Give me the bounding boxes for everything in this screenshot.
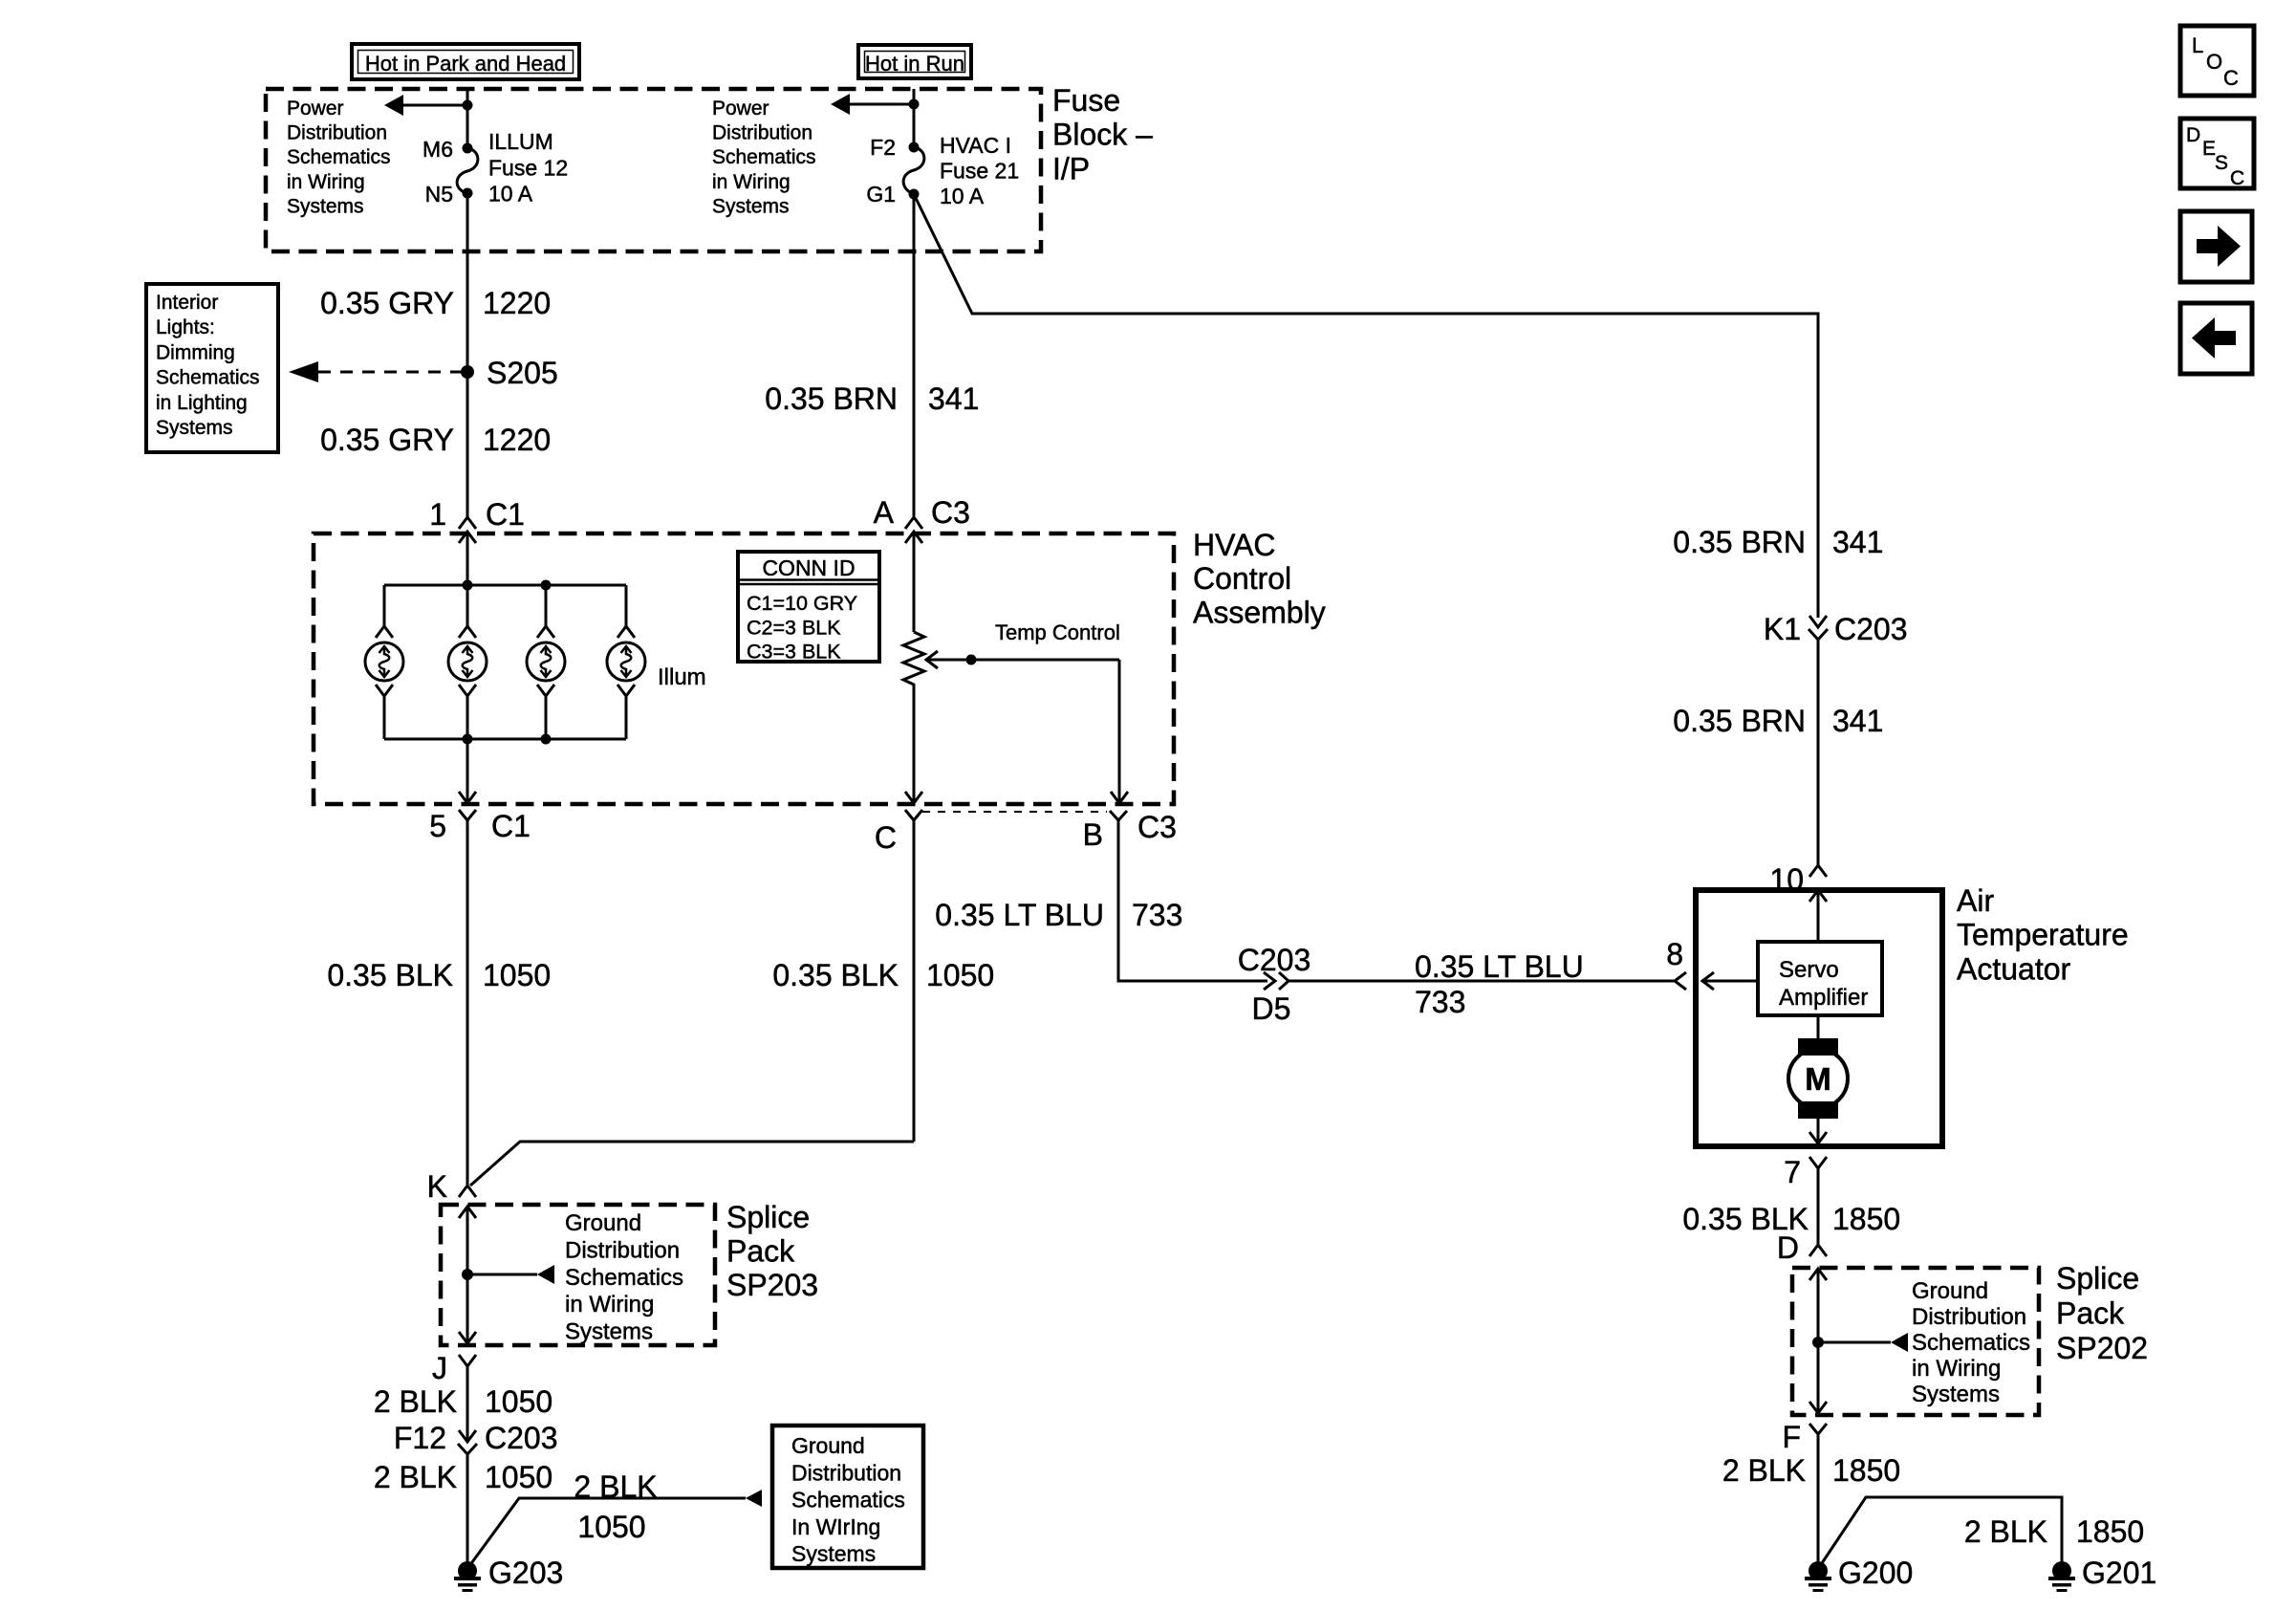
svg-text:Interior: Interior xyxy=(156,292,218,314)
splice S205 dot xyxy=(461,365,474,379)
svg-text:Schematics: Schematics xyxy=(712,146,816,168)
CONN ID table xyxy=(738,552,879,662)
reference arrow SP202 to ground distribution xyxy=(1818,1341,1891,1344)
svg-text:F: F xyxy=(1782,1420,1801,1454)
junction dot bottom bus at lamp 2 xyxy=(463,734,473,745)
wire 0.35 BLK from connector C3 pin C down xyxy=(913,820,916,1142)
svg-text:1850: 1850 xyxy=(1832,1202,1900,1236)
wire 0.35 BLK connector C1 pin 5 down to splice pack xyxy=(466,820,469,1186)
svg-text:HVAC I: HVAC I xyxy=(940,133,1011,158)
splice pack SP203 dashed box xyxy=(441,1205,715,1345)
svg-text:In WIrIng: In WIrIng xyxy=(791,1514,880,1539)
svg-text:Systems: Systems xyxy=(791,1541,876,1566)
svg-text:0.35 LT BLU: 0.35 LT BLU xyxy=(935,898,1104,932)
connector C3 pin B (female half) xyxy=(1110,811,1127,820)
svg-text:F12: F12 xyxy=(394,1421,446,1455)
svg-text:C1: C1 xyxy=(486,497,525,532)
wire 0.35 LT BLU connector B elbow xyxy=(1118,820,1267,981)
svg-text:S205: S205 xyxy=(487,356,558,390)
svg-text:CONN ID: CONN ID xyxy=(762,555,855,580)
splice pack SP203 exit arrow xyxy=(459,1332,476,1343)
svg-text:Air: Air xyxy=(1957,883,1994,918)
icon back arrow xyxy=(2180,303,2252,374)
connector C3 pin C (female half) xyxy=(905,810,922,820)
connector pin 7 (female half) xyxy=(1809,1157,1827,1168)
junction dot top bus at lamp 3 xyxy=(541,580,552,591)
connector C1 pin 1 (male arrow) xyxy=(459,532,476,543)
connector J (female half) xyxy=(459,1355,476,1366)
svg-text:Schematics: Schematics xyxy=(791,1488,905,1513)
wire into illumination lamp bus xyxy=(466,532,469,585)
svg-text:1050: 1050 xyxy=(485,1460,552,1494)
wire 0.35 BRN fuse 21 G1 to air temperature actuator riser xyxy=(914,194,1818,618)
motor brush (bottom) xyxy=(1798,1101,1838,1119)
svg-text:Hot in Run: Hot in Run xyxy=(865,52,964,76)
illumination lamp 3 xyxy=(545,585,548,626)
svg-text:G203: G203 xyxy=(488,1556,563,1590)
connector C3 pin A (male arrow) xyxy=(905,532,922,543)
svg-text:Systems: Systems xyxy=(565,1319,653,1345)
svg-text:ILLUM: ILLUM xyxy=(488,129,553,154)
connector F (female half) xyxy=(1809,1424,1827,1434)
illumination lamp 2 xyxy=(466,585,469,626)
svg-text:0.35 BLK: 0.35 BLK xyxy=(327,958,453,992)
wire 0.35 BLK pin 7 to connector D xyxy=(1817,1168,1820,1245)
ground G200 xyxy=(1809,1561,1828,1580)
svg-text:in Lighting: in Lighting xyxy=(156,392,248,414)
wire potentiometer to connector C3 pin C xyxy=(913,689,916,803)
junction dot SP202 xyxy=(1812,1337,1824,1348)
branch wire 2 BLK 1050 to ground distribution reference xyxy=(469,1498,746,1566)
svg-text:10 A: 10 A xyxy=(940,184,985,208)
HVAC Control Assembly dashed box xyxy=(314,533,1174,804)
svg-text:Distribution: Distribution xyxy=(565,1237,680,1263)
Air Temperature Actuator box xyxy=(1696,890,1942,1146)
svg-text:1050: 1050 xyxy=(926,958,994,992)
svg-text:Illum: Illum xyxy=(658,664,706,690)
svg-text:L: L xyxy=(2192,33,2203,57)
wire 0.35 GRY from fuse to S205 xyxy=(466,194,469,372)
svg-text:Ground: Ground xyxy=(565,1210,641,1236)
illumination lamp 1 xyxy=(383,585,386,626)
svg-text:Actuator: Actuator xyxy=(1957,951,2071,986)
svg-text:2 BLK: 2 BLK xyxy=(1964,1514,2047,1549)
dashed reference arrow to interior lights box xyxy=(318,371,461,374)
fuse terminal N5 dot xyxy=(463,188,473,199)
svg-text:Control: Control xyxy=(1193,561,1291,596)
svg-text:SP202: SP202 xyxy=(2056,1331,2148,1365)
wire 0.35 BRN to actuator pin 10 xyxy=(1817,640,1820,865)
fuse element HVAC I Fuse 21 (S-curve) xyxy=(903,147,924,194)
temp control potentiometer feed wire xyxy=(913,532,916,632)
label box: Hot in Park and Head xyxy=(352,44,579,79)
svg-text:7: 7 xyxy=(1784,1155,1801,1189)
svg-text:341: 341 xyxy=(928,381,979,416)
connector C203 D5 (male arrow) xyxy=(1264,972,1275,990)
svg-text:Temperature: Temperature xyxy=(1957,918,2129,952)
reference box: Interior Lights Dimming Schematics in Lighting Systems xyxy=(146,284,278,452)
svg-text:M6: M6 xyxy=(422,137,453,162)
svg-text:HVAC: HVAC xyxy=(1193,528,1276,562)
connector K (female half) xyxy=(459,1186,476,1197)
svg-text:D5: D5 xyxy=(1252,991,1291,1026)
svg-text:0.35 GRY: 0.35 GRY xyxy=(320,423,454,457)
connector K (male arrow) xyxy=(459,1207,476,1218)
wire motor to actuator box bottom xyxy=(1817,1117,1820,1143)
svg-text:0.35 BRN: 0.35 BRN xyxy=(1673,704,1806,738)
svg-text:G1: G1 xyxy=(866,182,896,207)
fuse terminal G1 dot xyxy=(909,189,920,200)
svg-text:1220: 1220 xyxy=(483,286,551,320)
icon DESC xyxy=(2180,119,2254,188)
svg-text:0.35 GRY: 0.35 GRY xyxy=(320,286,454,320)
svg-text:10 A: 10 A xyxy=(488,182,533,207)
fuse block I/P dashed box xyxy=(266,89,1041,251)
potentiometer resistive element (zigzag) xyxy=(903,632,924,689)
svg-text:5: 5 xyxy=(429,809,446,843)
connector C3 pin A (female half) xyxy=(905,517,922,529)
svg-text:2 BLK: 2 BLK xyxy=(574,1469,657,1504)
svg-text:Lights:: Lights: xyxy=(156,316,215,338)
svg-text:1220: 1220 xyxy=(483,423,551,457)
branch wire 2 BLK 1850 to ground G201 xyxy=(1820,1497,2062,1566)
svg-text:Schematics: Schematics xyxy=(1912,1330,2030,1356)
svg-text:B: B xyxy=(1083,817,1103,852)
lamp bus (top) xyxy=(384,584,626,587)
connector C1 pin 5 (female half) xyxy=(459,810,476,820)
fuse element ILLUM Fuse 12 (S-curve) xyxy=(457,148,478,193)
junction dot on Park/Head feed xyxy=(463,100,473,111)
wire 0.35 BRN fuse 21 to connector C3 pin A xyxy=(913,194,916,517)
wire from Hot in Run feed down to fuse 21 xyxy=(913,89,916,147)
svg-text:1050: 1050 xyxy=(485,1384,552,1419)
svg-text:G201: G201 xyxy=(2082,1556,2156,1590)
splice pack SP202 exit arrow xyxy=(1809,1402,1827,1413)
svg-text:Dimming: Dimming xyxy=(156,341,235,363)
svg-text:1050: 1050 xyxy=(577,1510,645,1544)
svg-text:1050: 1050 xyxy=(483,958,551,992)
svg-text:C3: C3 xyxy=(931,495,970,530)
wire 2 BLK to ground G200 xyxy=(1817,1434,1820,1565)
wire J to connector C203 F12 xyxy=(466,1366,469,1442)
svg-text:2 BLK: 2 BLK xyxy=(374,1460,457,1494)
svg-text:Distribution: Distribution xyxy=(1912,1304,2026,1330)
wire from Hot in Park feed down to fuse 12 xyxy=(466,89,469,148)
wiper lead down to connector C3 pin B xyxy=(1118,660,1121,803)
actuator exit arrow pin 7 xyxy=(1809,1132,1827,1143)
svg-text:Splice: Splice xyxy=(2056,1261,2139,1295)
svg-text:C1: C1 xyxy=(491,809,531,843)
svg-text:Fuse 21: Fuse 21 xyxy=(940,159,1019,184)
wire elbow to splice pack K xyxy=(470,1142,914,1186)
svg-text:0.35 BRN: 0.35 BRN xyxy=(1673,525,1806,559)
reference arrow SP203 to ground distribution xyxy=(467,1274,537,1276)
ground G203 xyxy=(458,1561,477,1580)
reference box: Ground Distribution Schematics In WIrIng Systems (bottom) xyxy=(772,1426,923,1568)
wire through splice pack SP202 xyxy=(1817,1269,1820,1413)
svg-text:O: O xyxy=(2206,50,2222,74)
svg-text:Hot in Park and Head: Hot in Park and Head xyxy=(365,52,566,76)
icon next arrow xyxy=(2180,211,2252,282)
svg-text:Distribution: Distribution xyxy=(791,1460,901,1485)
connector C3 pin C (male arrow) xyxy=(905,792,922,803)
servo amplifier box xyxy=(1758,942,1882,1015)
connector C3 pin B (male arrow) xyxy=(1111,792,1128,803)
wire lamp bus to connector C1 pin 5 xyxy=(466,739,469,803)
wire 2 BLK to ground G203 xyxy=(466,1454,469,1565)
svg-text:Power: Power xyxy=(287,98,344,120)
svg-text:E: E xyxy=(2202,138,2216,160)
svg-text:C: C xyxy=(2223,66,2239,90)
svg-text:733: 733 xyxy=(1415,985,1465,1019)
svg-text:Pack: Pack xyxy=(2056,1296,2125,1331)
svg-text:Power: Power xyxy=(712,98,769,120)
svg-text:SP203: SP203 xyxy=(726,1268,818,1302)
svg-text:Systems: Systems xyxy=(287,195,364,217)
svg-text:C1=10 GRY: C1=10 GRY xyxy=(747,592,857,615)
connector C3 grouping dashed line xyxy=(922,811,1107,813)
connector C203 F12 (male arrow) xyxy=(459,1430,476,1442)
svg-text:D: D xyxy=(2186,124,2200,146)
svg-text:Systems: Systems xyxy=(712,195,790,217)
svg-text:Amplifier: Amplifier xyxy=(1779,985,1868,1011)
wire pin 10 to servo amplifier xyxy=(1817,890,1820,942)
svg-text:Ground: Ground xyxy=(1912,1278,1988,1304)
connector pin 10 (male arrow) xyxy=(1809,890,1827,902)
svg-text:I/P: I/P xyxy=(1052,151,1090,185)
svg-text:Block –: Block – xyxy=(1052,118,1153,152)
svg-text:0.35 BRN: 0.35 BRN xyxy=(765,381,898,416)
splice pack SP202 dashed box xyxy=(1792,1268,2039,1415)
wire servo amplifier to motor xyxy=(1817,1015,1820,1040)
svg-text:in Wiring: in Wiring xyxy=(287,171,365,193)
svg-text:341: 341 xyxy=(1832,525,1883,559)
svg-text:Schematics: Schematics xyxy=(156,367,260,389)
svg-text:Servo: Servo xyxy=(1779,957,1839,983)
svg-text:Systems: Systems xyxy=(1912,1382,2000,1407)
svg-text:1850: 1850 xyxy=(2076,1514,2144,1549)
svg-text:Splice: Splice xyxy=(726,1200,810,1234)
connector pin 8 (female half) xyxy=(1675,972,1686,990)
connector D (female half) xyxy=(1809,1245,1827,1256)
connector D (male arrow) xyxy=(1809,1269,1827,1280)
motor body M xyxy=(1788,1049,1848,1108)
svg-text:K1: K1 xyxy=(1764,612,1801,646)
svg-text:G200: G200 xyxy=(1838,1556,1913,1590)
svg-text:Pack: Pack xyxy=(726,1233,795,1268)
reference arrow to power distribution (middle) xyxy=(849,103,914,106)
svg-text:C2=3 BLK: C2=3 BLK xyxy=(747,616,841,639)
svg-text:Temp Control: Temp Control xyxy=(995,620,1120,644)
potentiometer wiper arrow xyxy=(926,651,938,668)
svg-text:in Wiring: in Wiring xyxy=(565,1292,654,1317)
svg-text:1850: 1850 xyxy=(1832,1453,1900,1488)
svg-text:Systems: Systems xyxy=(156,417,233,439)
svg-text:Distribution: Distribution xyxy=(287,122,387,144)
reference arrow to power distribution (left) xyxy=(402,104,467,107)
svg-text:S: S xyxy=(2215,152,2228,174)
connector C1 pin 5 (male arrow) xyxy=(459,792,476,803)
connector C203 K1 (female half) xyxy=(1809,629,1828,640)
svg-text:C203: C203 xyxy=(1238,943,1311,977)
svg-text:Schematics: Schematics xyxy=(565,1265,683,1291)
svg-text:733: 733 xyxy=(1132,898,1182,932)
svg-text:A: A xyxy=(874,495,895,530)
junction dot bottom bus at lamp 3 xyxy=(541,734,552,745)
connector C203 F12 (female half) xyxy=(458,1444,477,1454)
svg-text:in Wiring: in Wiring xyxy=(1912,1356,2001,1382)
svg-text:C203: C203 xyxy=(485,1421,558,1455)
wire through splice pack SP203 xyxy=(466,1207,469,1343)
servo amplifier output arrow to pin 8 xyxy=(1702,972,1714,990)
junction dot on Run feed xyxy=(909,99,920,110)
svg-text:0.35 BLK: 0.35 BLK xyxy=(772,958,899,992)
svg-text:F2: F2 xyxy=(870,135,896,160)
svg-text:C3: C3 xyxy=(1137,810,1177,844)
connector C203 K1 (male arrow) xyxy=(1809,616,1827,627)
svg-text:1: 1 xyxy=(429,497,446,532)
connector C1 pin 1 (female half) xyxy=(459,517,476,529)
svg-text:C3=3 BLK: C3=3 BLK xyxy=(747,641,841,664)
label box: Hot in Run xyxy=(858,45,971,78)
svg-text:D: D xyxy=(1777,1230,1799,1265)
svg-text:Ground: Ground xyxy=(791,1433,865,1458)
fuse F21 terminal F2 dot xyxy=(909,142,920,153)
junction dot on wiper lead xyxy=(966,655,977,665)
svg-text:C203: C203 xyxy=(1834,612,1908,646)
junction dot SP203 xyxy=(462,1269,473,1280)
svg-text:Assembly: Assembly xyxy=(1193,595,1326,629)
svg-text:N5: N5 xyxy=(425,182,453,207)
svg-text:Schematics: Schematics xyxy=(287,146,391,168)
icon LOC xyxy=(2180,26,2254,96)
svg-text:Fuse 12: Fuse 12 xyxy=(488,155,568,180)
fuse F12 ILLUM terminal M6 dot xyxy=(463,143,473,154)
svg-text:K: K xyxy=(427,1169,447,1204)
illumination lamp 4 xyxy=(625,585,628,626)
svg-text:Fuse: Fuse xyxy=(1052,83,1120,118)
motor brush (top) xyxy=(1798,1038,1838,1056)
svg-text:C: C xyxy=(875,820,897,855)
lamp bus (bottom) xyxy=(384,738,626,741)
svg-text:in Wiring: in Wiring xyxy=(712,171,791,193)
junction dot top bus at lamp 2 xyxy=(463,580,473,591)
svg-text:C: C xyxy=(2230,167,2244,189)
svg-text:8: 8 xyxy=(1666,937,1683,971)
svg-text:341: 341 xyxy=(1832,704,1883,738)
connector C203 D5 (female half) xyxy=(1279,972,1289,990)
svg-text:2 BLK: 2 BLK xyxy=(1722,1453,1806,1488)
svg-text:2 BLK: 2 BLK xyxy=(374,1384,457,1419)
svg-text:Distribution: Distribution xyxy=(712,122,812,144)
svg-text:M: M xyxy=(1805,1061,1831,1097)
svg-text:J: J xyxy=(432,1351,447,1385)
svg-text:0.35 LT BLU: 0.35 LT BLU xyxy=(1415,949,1584,984)
connector pin 10 (female half) xyxy=(1809,865,1827,877)
wire 0.35 GRY from S205 to connector C1 pin 1 xyxy=(466,372,469,517)
ground G201 xyxy=(2052,1561,2071,1580)
wire 0.35 LT BLU to actuator pin 8 xyxy=(1289,980,1675,983)
